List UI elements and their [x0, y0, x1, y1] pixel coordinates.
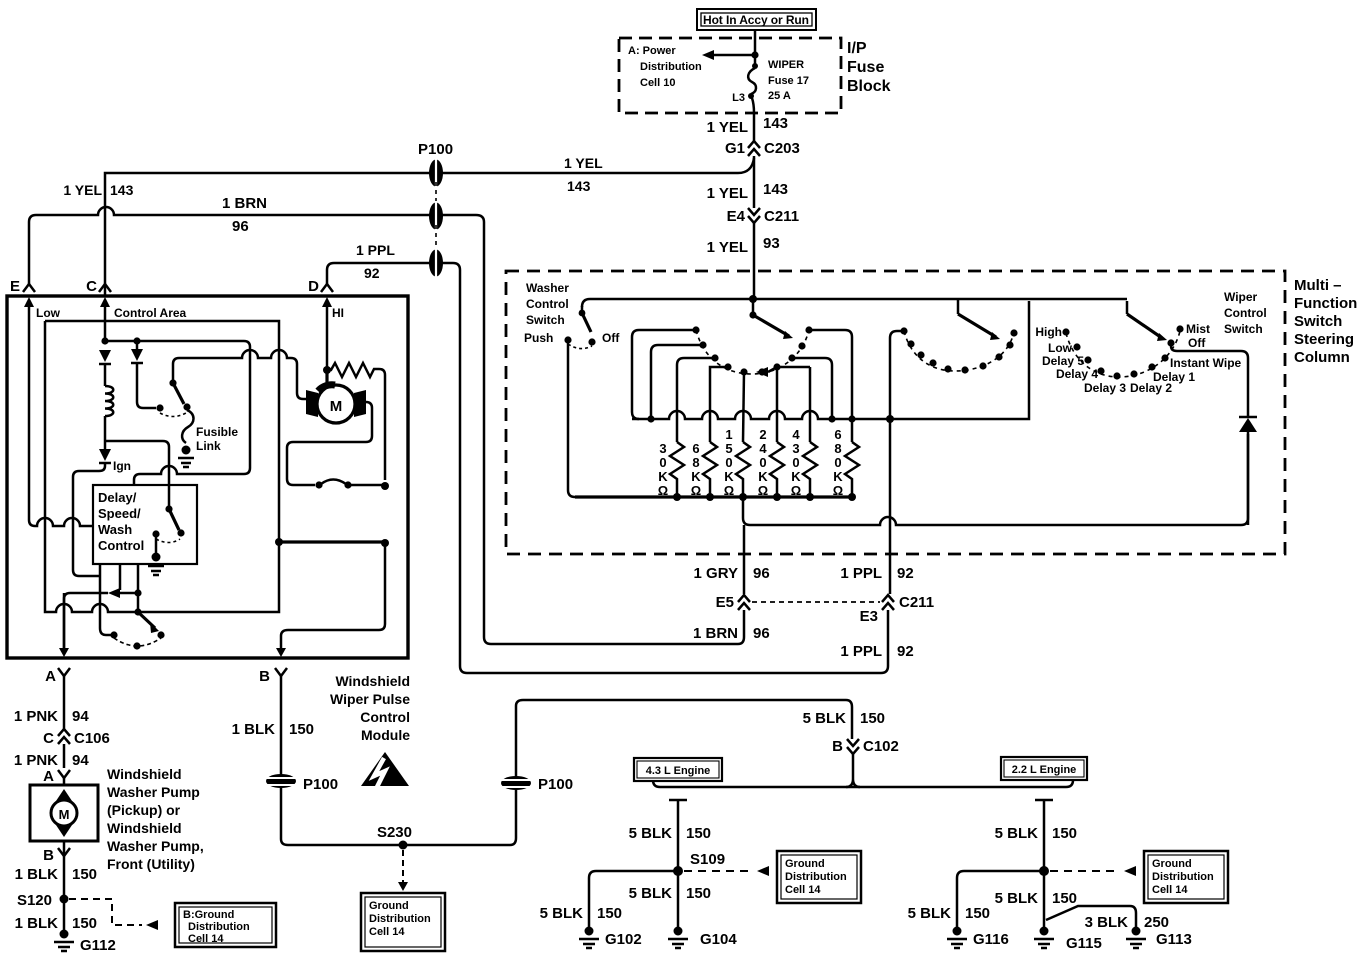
power label box "Hot In Accy or Run"	[697, 9, 816, 30]
grommet P100 on B wire	[266, 774, 338, 793]
connector B C102	[832, 738, 899, 755]
multifunction switch dashed box	[506, 271, 1285, 554]
label Wiper Control Switch	[1224, 290, 1267, 336]
svg-text:143: 143	[763, 115, 788, 132]
svg-text:C102: C102	[863, 738, 899, 755]
svg-text:1 BLK: 1 BLK	[15, 866, 59, 883]
node contact10 bus junction	[848, 415, 855, 422]
resistor output bus with humps	[632, 411, 852, 419]
delay speed wash control box	[93, 485, 197, 564]
wire C106 down to pump	[63, 744, 66, 768]
ESD sensitive symbol	[361, 752, 409, 787]
diode B	[131, 341, 143, 363]
svg-text:Washer Pump: Washer Pump	[107, 784, 200, 800]
svg-text:Fuse: Fuse	[847, 59, 884, 76]
label 1 YEL 143 on horizontal run	[564, 155, 603, 194]
fusible switch left contact	[156, 404, 163, 411]
svg-text:Distribution: Distribution	[369, 913, 431, 925]
wire GRY output down	[743, 525, 746, 594]
node dot on lower arc	[133, 642, 140, 649]
wire washer Push down to bottom bus	[568, 340, 575, 497]
wire delay box drop 2 stub	[119, 564, 122, 590]
svg-text:Control: Control	[1224, 306, 1267, 320]
svg-text:Column: Column	[1294, 349, 1350, 366]
svg-text:(Pickup) or: (Pickup) or	[107, 802, 181, 818]
wire fuse output down	[753, 113, 756, 141]
wire contact8 to bus	[792, 358, 832, 419]
dashed reference from S120	[69, 899, 158, 930]
svg-text:L3: L3	[732, 92, 745, 104]
svg-text:5 BLK: 5 BLK	[629, 825, 673, 842]
node contact2 bus junction	[647, 415, 654, 422]
svg-text:150: 150	[597, 905, 622, 922]
pin A connector chevron	[45, 668, 70, 685]
svg-text:C211: C211	[764, 208, 799, 225]
node bus x890 junction	[886, 415, 894, 423]
connector E5	[716, 594, 750, 611]
svg-text:G1: G1	[725, 140, 745, 157]
svg-text:G104: G104	[700, 931, 737, 948]
svg-text:Cell 14: Cell 14	[785, 884, 821, 896]
node junction on C wire	[101, 337, 108, 344]
washer dashed arc	[568, 344, 592, 349]
label Delay/Speed/Wash Control	[98, 490, 144, 553]
svg-text:G115: G115	[1066, 935, 1102, 952]
label 1 BRN 96 top	[222, 195, 267, 235]
wire output drop and lower rail to diode (hump over x888)	[743, 434, 1248, 525]
label Fusible Link	[196, 425, 238, 453]
wire from C branch junction right to delay switch pivot feed	[105, 441, 169, 509]
svg-text:Cell 14: Cell 14	[188, 933, 224, 945]
svg-text:Windshield: Windshield	[107, 820, 182, 836]
wire B feed bar	[279, 540, 385, 543]
washer contact Off	[588, 338, 595, 345]
fusible switch moving contact	[183, 403, 190, 410]
dashed connector line E5 to E3	[752, 601, 880, 603]
svg-text:Switch: Switch	[526, 313, 565, 327]
main switch bus	[582, 299, 1127, 307]
wire 2.2 branch down to splice	[1035, 800, 1053, 871]
delay switch blade	[169, 509, 179, 530]
lower switch dashed arc	[114, 638, 161, 646]
svg-text:1 BLK: 1 BLK	[232, 721, 276, 738]
wire delay box drop 1 to wash contact	[100, 564, 111, 635]
svg-text:K: K	[833, 469, 843, 484]
svg-text:0: 0	[659, 455, 666, 470]
label 5 BLK 150 (G116)	[908, 905, 990, 922]
label 1 PNK 94 second	[14, 752, 90, 769]
svg-text:4: 4	[759, 441, 767, 456]
svg-text:96: 96	[753, 565, 770, 582]
wire PPL output from bus x890 down	[889, 419, 892, 594]
svg-text:G102: G102	[605, 931, 642, 948]
wire splice down to G115	[1043, 871, 1046, 927]
svg-text:K: K	[658, 469, 668, 484]
wire 4.3 branch down to S109	[669, 800, 687, 870]
wire C211 down into multifunction switch	[753, 223, 756, 298]
svg-text:Distribution: Distribution	[1152, 871, 1214, 883]
label 1 PNK 94	[14, 708, 90, 725]
svg-text:Ground: Ground	[369, 900, 409, 912]
svg-text:96: 96	[232, 218, 249, 235]
rotor dashed arc 2	[904, 331, 1014, 371]
svg-text:92: 92	[364, 265, 380, 281]
connector C C106	[43, 729, 110, 747]
label I/P Fuse Block	[847, 40, 891, 95]
svg-text:0: 0	[725, 455, 732, 470]
svg-text:94: 94	[72, 752, 89, 769]
svg-text:Distribution: Distribution	[188, 921, 250, 933]
resistor R5 430K	[803, 442, 817, 497]
diode C (Ign)	[99, 449, 111, 463]
svg-text:150: 150	[72, 866, 97, 883]
svg-text:Switch: Switch	[1294, 313, 1342, 330]
svg-text:2: 2	[759, 427, 766, 442]
svg-text:150: 150	[965, 905, 990, 922]
svg-text:Control: Control	[360, 709, 410, 725]
label windshield wiper pulse control module	[330, 673, 410, 743]
bottom bus dots	[673, 493, 856, 501]
svg-text:6: 6	[834, 427, 841, 442]
wire diode B to fusible switch left contact	[137, 363, 156, 408]
label 30K ohm	[658, 441, 669, 498]
arc2 contact dots	[900, 327, 1017, 373]
delay switch moving contact	[177, 529, 184, 536]
svg-text:Windshield: Windshield	[335, 673, 410, 689]
dashed reference from 2.2 splice	[1050, 866, 1136, 876]
label 240K ohm	[758, 427, 769, 498]
lower switch right contact	[157, 631, 164, 638]
svg-text:0: 0	[834, 455, 841, 470]
svg-text:5 BLK: 5 BLK	[803, 710, 847, 727]
wire x385 down then left to B pin	[281, 543, 385, 649]
fusible link S-wire	[182, 410, 193, 443]
svg-text:Washer: Washer	[526, 281, 569, 295]
grommet P100 pass 3	[429, 248, 443, 278]
wash contact line from A wire with arrow	[64, 588, 138, 648]
svg-text:Delay 4: Delay 4	[1056, 367, 1098, 381]
svg-text:250: 250	[1144, 914, 1169, 931]
svg-text:B:Ground: B:Ground	[183, 909, 234, 921]
wire B down to P100	[280, 676, 283, 776]
wire bus to wiper control feed	[852, 301, 1029, 419]
svg-text:G113: G113	[1156, 931, 1192, 948]
wire 1 PPL 92 horizontal (D of module, HI)	[327, 263, 888, 673]
dashed link between grommets	[435, 182, 437, 208]
label 5 BLK 150 (4.3 upper)	[629, 825, 711, 842]
wire pump B down to S120	[63, 841, 66, 898]
pin C chevron and label	[86, 278, 111, 295]
module outline windshield wiper pulse control module	[7, 296, 408, 658]
label Washer Control Switch	[526, 281, 569, 327]
fusible switch blade	[173, 383, 184, 404]
control area inner box with humps	[45, 321, 279, 612]
arrow to Power Distribution Cell 10	[702, 50, 755, 60]
ground G104	[668, 927, 737, 949]
wire Off contact to diode	[1171, 343, 1248, 416]
svg-text:Off: Off	[1188, 336, 1206, 350]
label 5 BLK 150 (2.2 upper)	[995, 825, 1077, 842]
wire C203 to C211	[753, 156, 756, 208]
svg-text:E3: E3	[860, 608, 878, 625]
node: fuse feed junction	[751, 51, 758, 58]
svg-text:1 PNK: 1 PNK	[14, 708, 58, 725]
resistor bottom bus	[575, 495, 852, 498]
svg-text:High: High	[1035, 325, 1062, 339]
svg-text:Windshield: Windshield	[107, 766, 182, 782]
label 680K ohm	[833, 427, 844, 498]
svg-text:4: 4	[792, 427, 800, 442]
fusible switch dashed arc	[160, 413, 186, 417]
label 430K ohm	[791, 427, 802, 498]
svg-text:Off: Off	[602, 331, 620, 345]
svg-text:Ground: Ground	[785, 858, 825, 870]
park contact left dot	[315, 481, 322, 488]
svg-text:S120: S120	[17, 892, 52, 909]
svg-text:2.2 L Engine: 2.2 L Engine	[1012, 764, 1077, 776]
wire P100 down and right to S230	[281, 787, 510, 845]
svg-text:Ign: Ign	[113, 459, 131, 473]
svg-text:Steering: Steering	[1294, 331, 1354, 348]
pin A arrow down	[59, 593, 69, 657]
svg-text:1 PPL: 1 PPL	[840, 643, 882, 660]
delay rotor blade 1	[749, 299, 793, 339]
delay rotor dashed arc 1	[696, 330, 809, 374]
reference box Ground Distribution Cell 14 (S109)	[777, 851, 861, 903]
svg-text:Instant Wipe: Instant Wipe	[1170, 356, 1242, 370]
pin B pump chevron	[43, 847, 70, 864]
svg-text:M: M	[330, 398, 343, 415]
svg-text:150: 150	[289, 721, 314, 738]
svg-text:Switch: Switch	[1224, 322, 1263, 336]
svg-text:1 PNK: 1 PNK	[14, 752, 58, 769]
wire 1 YEL 143 horizontal (C of module to fuse)	[105, 158, 754, 296]
diode A on C branch	[99, 350, 111, 386]
svg-text:Multi –: Multi –	[1294, 277, 1342, 294]
wire x890 up to arc2	[890, 331, 904, 419]
diode in wiper switch	[1239, 417, 1257, 525]
svg-text:D: D	[308, 278, 319, 295]
wire A down to C106	[63, 676, 66, 729]
svg-text:5 BLK: 5 BLK	[995, 890, 1039, 907]
svg-text:1 BLK: 1 BLK	[15, 915, 59, 932]
svg-text:8: 8	[692, 455, 699, 470]
svg-text:Wiper Pulse: Wiper Pulse	[330, 691, 410, 707]
svg-text:5 BLK: 5 BLK	[995, 825, 1039, 842]
label 5 BLK 150 (G104)	[629, 885, 711, 902]
wire motor right loop to park contact line	[287, 402, 372, 485]
svg-text:Fuse 17: Fuse 17	[768, 75, 809, 87]
resistor R4 240K	[770, 442, 784, 497]
svg-text:A: A	[43, 768, 54, 785]
resistor R2 68K	[703, 442, 717, 497]
resistor R3 150K	[736, 442, 750, 497]
svg-text:92: 92	[897, 565, 914, 582]
svg-text:P100: P100	[418, 141, 453, 158]
svg-text:C: C	[86, 278, 97, 295]
wire E branch to delay box left (humps over box edge and x72)	[29, 518, 93, 526]
pin B connector chevron	[259, 668, 287, 685]
splice S120	[17, 892, 69, 909]
svg-text:150: 150	[72, 915, 97, 932]
contact6 arrow	[756, 367, 777, 377]
wire D junction into motor	[325, 370, 328, 388]
svg-text:Block: Block	[847, 78, 891, 95]
svg-text:1 YEL: 1 YEL	[63, 182, 102, 198]
svg-text:Control: Control	[98, 538, 144, 553]
label 1 YEL 143 at left	[63, 182, 133, 198]
svg-text:1 BRN: 1 BRN	[222, 195, 267, 212]
label 1 BRN 96 lower	[693, 625, 770, 642]
svg-text:E: E	[10, 278, 20, 295]
svg-text:Distribution: Distribution	[640, 61, 702, 73]
label 1 BLK 150 second	[15, 915, 97, 932]
label 5 BLK 150 at C102	[803, 710, 885, 727]
wire contact4 to resistor2	[710, 367, 728, 442]
ground G115	[1034, 927, 1102, 953]
label 1 BLK 150 on B wire	[232, 721, 314, 738]
svg-text:4.3 L Engine: 4.3 L Engine	[646, 765, 711, 777]
label 1 PPL 92 lower	[840, 643, 913, 660]
arc1 contact dots	[692, 326, 812, 375]
svg-text:5 BLK: 5 BLK	[540, 905, 584, 922]
ground G102	[579, 927, 642, 949]
svg-text:3: 3	[659, 441, 666, 456]
svg-text:Low: Low	[1048, 341, 1073, 355]
wire from Hot box into fuse block	[754, 30, 757, 55]
svg-text:K: K	[758, 469, 768, 484]
svg-text:Fusible: Fusible	[196, 425, 238, 439]
wire park contact to x385 node	[348, 484, 385, 487]
label 5 BLK 150 (G102)	[540, 905, 622, 922]
svg-text:B: B	[259, 668, 270, 685]
svg-text:Speed/: Speed/	[98, 506, 141, 521]
fusible link terminal dot and bars	[178, 446, 194, 468]
fuse text WIPER Fuse 17 25 A	[768, 59, 809, 102]
svg-text:Push: Push	[524, 331, 553, 345]
washer contact Push	[564, 336, 571, 343]
resistor R6 680K	[845, 442, 859, 497]
wiper motor M	[306, 385, 366, 423]
svg-text:6: 6	[692, 441, 699, 456]
svg-text:G112: G112	[80, 937, 116, 954]
svg-text:Mist: Mist	[1186, 322, 1210, 336]
svg-text:WIPER: WIPER	[768, 59, 804, 71]
ground G112	[54, 930, 116, 955]
svg-text:1 PPL: 1 PPL	[840, 565, 882, 582]
dashed reference from S109	[684, 866, 769, 876]
svg-text:143: 143	[110, 182, 134, 198]
park contact right dot	[344, 481, 351, 488]
svg-text:B: B	[832, 738, 843, 755]
svg-text:Wiper: Wiper	[1224, 290, 1258, 304]
svg-text:K: K	[724, 469, 734, 484]
svg-text:C203: C203	[764, 140, 800, 157]
svg-text:25 A: 25 A	[768, 90, 791, 102]
wire C102 to engine split brace	[846, 754, 860, 787]
svg-text:5 BLK: 5 BLK	[629, 885, 673, 902]
grommet P100 pass 1	[429, 158, 443, 188]
svg-text:Washer Pump,: Washer Pump,	[107, 838, 204, 854]
label 1 YEL 143	[707, 115, 788, 136]
I/P fuse block dashed box	[619, 38, 841, 113]
svg-text:1 GRY: 1 GRY	[694, 565, 738, 582]
svg-text:S230: S230	[377, 824, 412, 841]
node dot on y593 line	[134, 589, 141, 596]
coil (relay winding) on C branch	[105, 386, 113, 416]
svg-text:1 YEL: 1 YEL	[564, 155, 603, 171]
svg-text:A: A	[45, 668, 56, 685]
wire pivot up and right to motor (humps over x248 x279)	[173, 350, 309, 399]
svg-text:1 YEL: 1 YEL	[707, 185, 748, 202]
wire Ign diode down-left to lower network	[73, 463, 105, 576]
svg-text:3: 3	[792, 441, 799, 456]
node feed junction	[749, 295, 757, 303]
pin B arrow down	[276, 648, 286, 657]
label 5 BLK 150 (G115)	[995, 890, 1077, 907]
reference box Ground Distribution Cell 14 (2.2)	[1144, 851, 1228, 903]
svg-text:1 BRN: 1 BRN	[693, 625, 738, 642]
label A: Power Distribution Cell 10	[628, 45, 702, 89]
connector E3 C211	[860, 594, 934, 625]
pin A pump chevron	[43, 768, 70, 785]
park contact arc	[321, 480, 346, 485]
svg-text:8: 8	[834, 441, 841, 456]
wiper control blade 3	[1127, 301, 1167, 341]
label 1 PPL 92 top	[356, 242, 395, 281]
svg-text:A: Power: A: Power	[628, 45, 676, 57]
svg-text:3 BLK: 3 BLK	[1085, 914, 1129, 931]
fuse WIPER Fuse 17 25A	[748, 55, 758, 113]
label 150K ohm	[724, 427, 735, 498]
svg-text:Front (Utility): Front (Utility)	[107, 856, 195, 872]
node D junction	[323, 366, 331, 374]
svg-text:0: 0	[759, 455, 766, 470]
wire internal bus y341 to right then down to y474 and into delay box top	[105, 341, 250, 485]
wire S230 riser up through P100 to C102	[510, 700, 852, 845]
svg-text:M: M	[59, 807, 70, 822]
svg-text:Function: Function	[1294, 295, 1357, 312]
svg-text:Delay 5: Delay 5	[1042, 354, 1084, 368]
label 68K ohm	[691, 441, 702, 498]
svg-text:94: 94	[72, 708, 89, 725]
wire S109 left branch to G102	[589, 871, 678, 927]
wire contact7 to resistor4 and resistor5	[777, 367, 810, 442]
wire S109 down to G104	[677, 871, 680, 927]
svg-text:Hot In Accy or Run: Hot In Accy or Run	[703, 13, 809, 27]
wire S120 to G112	[63, 899, 66, 930]
label box 4.3 L Engine	[634, 758, 722, 781]
svg-text:150: 150	[686, 885, 711, 902]
node contact8 bus junction	[828, 415, 835, 422]
wire contact10 to bus and resistor6	[809, 330, 852, 442]
wire branch to G113	[1046, 906, 1136, 927]
node B bar left	[275, 538, 283, 546]
svg-text:P100: P100	[538, 776, 573, 793]
svg-text:Control Area: Control Area	[114, 306, 187, 320]
svg-text:HI: HI	[332, 306, 344, 320]
svg-text:C: C	[43, 730, 54, 747]
label windshield washer pump	[107, 766, 204, 872]
delay switch left contact	[152, 530, 159, 537]
ground G116	[947, 927, 1009, 949]
washer pump box	[30, 785, 98, 841]
label 1 PPL 92 upper	[840, 565, 913, 582]
ground G113	[1126, 927, 1192, 949]
node x385 junction1	[381, 482, 389, 490]
node dot on box bottom edge	[134, 608, 141, 615]
svg-text:92: 92	[897, 643, 914, 660]
